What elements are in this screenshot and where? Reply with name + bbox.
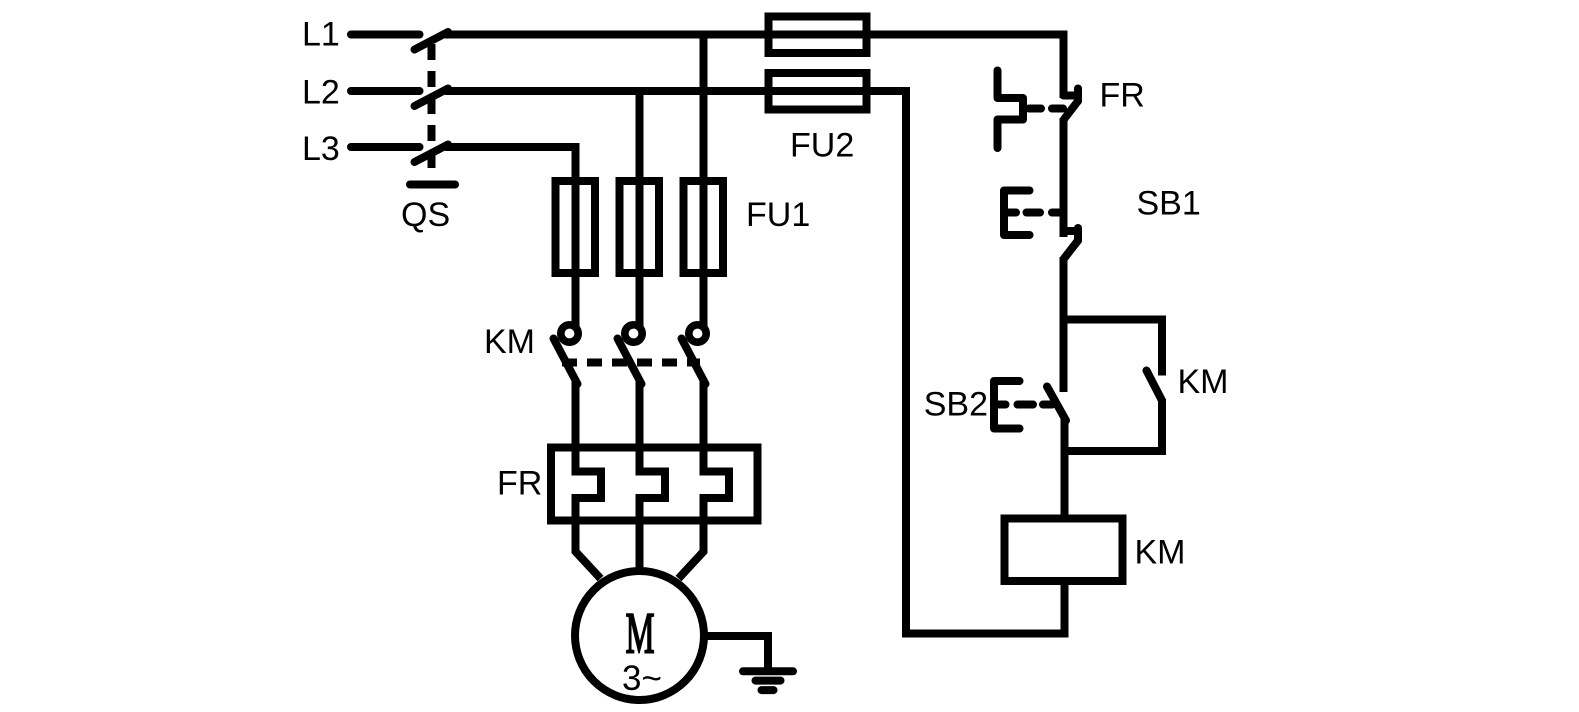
- button SB1 NC contact hook bar: [1074, 228, 1082, 241]
- svg-text:SB2: SB2: [924, 386, 988, 424]
- wire motor to ground: [706, 636, 768, 668]
- svg-text:KM: KM: [484, 323, 535, 361]
- wire L2 branch down to fuse 2: [636, 91, 644, 326]
- relay FR NC contact seat: [1064, 92, 1079, 100]
- fuse FU1 element 1: [556, 181, 596, 273]
- coil KM rectangle: [1005, 519, 1123, 582]
- switch QS pole 1 blade: [415, 32, 449, 50]
- svg-text:SB1: SB1: [1137, 185, 1201, 223]
- button SB1 NC contact seat: [1064, 227, 1079, 235]
- wire L2 lead-in: [351, 87, 420, 95]
- wire KM aux bottom: [1064, 399, 1162, 451]
- motor M circle: [575, 571, 704, 700]
- svg-text:L2: L2: [302, 74, 340, 112]
- switch QS pole 2 blade: [415, 89, 449, 107]
- relay FR NC contact hook bar: [1074, 89, 1082, 102]
- wire FR contact to SB1: [1060, 118, 1068, 237]
- switch QS bar: [410, 181, 455, 189]
- button SB1 NC contact blade: [1064, 241, 1078, 259]
- wire phase 3 blade to heater to motor lead: [679, 381, 730, 579]
- svg-text:L1: L1: [302, 16, 340, 54]
- button SB2 actuator: [994, 381, 1020, 429]
- wire L1 branch down to fuse 3: [700, 35, 708, 327]
- relay FR NC contact link dashes: [1029, 105, 1063, 113]
- wire L2 to FU2 then down-left return wire to coil bottom: [445, 91, 1065, 634]
- button SB1 link dashes: [1027, 209, 1064, 217]
- ground bar 1: [743, 667, 793, 675]
- fuse FU1 element 3: [684, 181, 724, 273]
- wire parallel branch top: [1064, 320, 1163, 376]
- button SB1 actuator: [1004, 191, 1030, 236]
- svg-text:FU1: FU1: [746, 196, 810, 234]
- wire phase 1 blade to heater to motor lead: [576, 381, 602, 579]
- svg-text:FR: FR: [497, 465, 542, 503]
- switch QS linkage dashed line: [428, 44, 436, 176]
- switch QS pole 3 blade: [415, 145, 449, 163]
- button SB2 NO contact blade: [1047, 387, 1066, 421]
- svg-text:3~: 3~: [622, 659, 662, 698]
- wire L1 lead-in: [351, 31, 420, 39]
- contactor KM pole 1 blade: [554, 339, 578, 385]
- wire L1 to FU2 and control corner: [445, 35, 1064, 99]
- svg-text:FR: FR: [1100, 77, 1145, 115]
- svg-text:KM: KM: [1178, 363, 1229, 401]
- svg-text:L3: L3: [302, 130, 340, 168]
- fuse FU2 element b: [769, 73, 867, 110]
- wire SB2 to coil: [1061, 419, 1069, 516]
- contact KM aux blade: [1147, 371, 1163, 401]
- wire SB1 to SB2 with junction: [1060, 257, 1068, 392]
- contactor KM pole 2 terminal circle: [625, 325, 642, 342]
- relay FR NC contact blade: [1064, 101, 1078, 120]
- contactor KM pole 3 terminal circle: [689, 325, 706, 342]
- wire phase 2 blade to heater to motor top: [640, 381, 666, 572]
- wire L3 lead-in: [351, 143, 420, 151]
- fuse FU1 element 2: [620, 181, 660, 273]
- relay FR NC contact thermal element: [998, 71, 1024, 149]
- contactor KM pole 3 blade: [682, 339, 706, 385]
- fuse FU2 element a: [769, 17, 867, 54]
- button SB2 link dashes: [1018, 401, 1053, 409]
- svg-text:M: M: [626, 602, 655, 666]
- ground bar 2: [756, 677, 781, 685]
- thermal relay FR heater box: [551, 448, 758, 521]
- ground bar 3: [762, 686, 774, 694]
- wire L3 to fuse 1: [445, 147, 576, 326]
- contactor KM pole 2 blade: [618, 339, 642, 385]
- contactor KM linkage dashed line: [562, 359, 700, 367]
- svg-text:QS: QS: [401, 196, 450, 234]
- svg-text:FU2: FU2: [790, 127, 854, 165]
- svg-text:KM: KM: [1135, 534, 1186, 572]
- contactor KM pole 1 terminal circle: [561, 325, 578, 342]
